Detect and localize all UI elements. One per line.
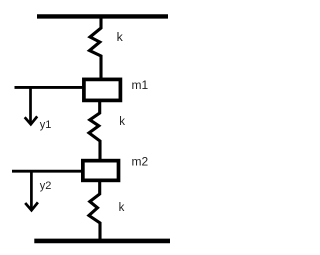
svg-text:y1: y1 xyxy=(40,119,52,131)
svg-text:m1: m1 xyxy=(132,78,149,92)
svg-text:k: k xyxy=(117,30,124,44)
svg-text:y2: y2 xyxy=(40,180,52,192)
svg-text:k: k xyxy=(119,202,125,214)
svg-text:k: k xyxy=(119,116,125,128)
svg-text:m2: m2 xyxy=(132,155,149,169)
